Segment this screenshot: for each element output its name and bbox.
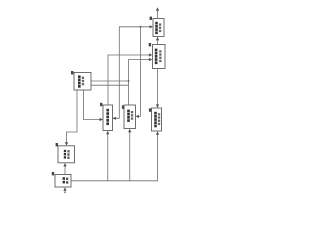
wire: B3 right output 1 <box>91 80 129 82</box>
B2 text blobs <box>155 49 158 65</box>
B4 text blobs <box>106 109 109 125</box>
label 4 for B5 <box>122 105 124 108</box>
arrowhead into B4 right <box>113 117 116 120</box>
arrowhead top output <box>156 7 159 11</box>
wire: power bus from B8 right along bottom and up to B6 bottom <box>71 134 158 181</box>
arrowhead into B6 top <box>156 104 159 108</box>
arrowhead into B2 left upper <box>149 53 152 56</box>
wire: bus branch up into B4 bottom <box>107 134 109 181</box>
box B8 <box>55 175 71 188</box>
B1 text blobs <box>155 22 158 34</box>
label 6 for B7 <box>56 143 58 146</box>
wire: branch down from y=26.8 into B5 right <box>139 27 141 117</box>
label 11 for B1 <box>150 17 152 20</box>
wire: B2 to B1 <box>157 40 159 44</box>
wire: B2 bottom down into B6 top <box>157 69 159 106</box>
label 2 for B3 <box>71 71 73 74</box>
wire: B3 right output 2 <box>91 84 129 86</box>
box B6 <box>152 108 162 131</box>
wire: bus branch up into B5 bottom <box>129 132 131 181</box>
B8 text blobs <box>63 177 65 183</box>
arrowhead into B4 left <box>100 118 103 121</box>
arrowhead into B2 left lower <box>149 58 152 61</box>
arrowhead into B7 bottom <box>63 163 66 167</box>
arrowhead into B8 bottom <box>63 187 66 191</box>
wire: B8 top to B7 bottom <box>64 167 66 175</box>
B5 text blobs <box>127 110 130 122</box>
box B5 <box>124 105 136 129</box>
box B2 <box>153 45 166 69</box>
wire: vertical bus x=128.5 from B5 top up, right into B2 left (lower input) <box>129 60 150 106</box>
arrowhead into B5 right <box>136 115 139 118</box>
B6 text blobs <box>154 112 157 127</box>
arrowhead into B7 top <box>65 142 68 146</box>
box B4 <box>103 105 113 131</box>
arrowhead into B4 bottom <box>106 131 109 135</box>
B7 text blobs <box>64 150 66 159</box>
box B7 <box>58 146 75 163</box>
box B1 <box>153 19 164 37</box>
wire: B4 top up and right into B2 left (upper input) <box>108 55 150 105</box>
arrowhead into B5 bottom <box>128 129 131 133</box>
arrowhead into B6 bottom <box>156 131 159 135</box>
junction B3 output 1 on vertical <box>128 80 130 82</box>
label 3 for B4 <box>100 103 102 106</box>
wire: B1 top output arrow up <box>157 10 159 18</box>
wire: B3 bottom output 2 down-right into B4 left <box>84 90 101 120</box>
arrowhead into B1 left <box>150 25 153 28</box>
arrowhead into B1 bottom <box>156 37 159 41</box>
wire: B3 bottom output 1 down-left into B7 top <box>67 90 78 143</box>
label 12 for B2 <box>149 43 151 46</box>
box B3 <box>74 73 91 91</box>
junction on B1 input line <box>140 26 142 28</box>
wire: B4 right side up to B1 left input <box>113 27 151 119</box>
label 5 for B6 <box>149 108 151 111</box>
B3 text blobs <box>78 75 81 87</box>
label 7 for B8 <box>52 172 54 175</box>
wire: input stub below B8 <box>64 190 66 192</box>
